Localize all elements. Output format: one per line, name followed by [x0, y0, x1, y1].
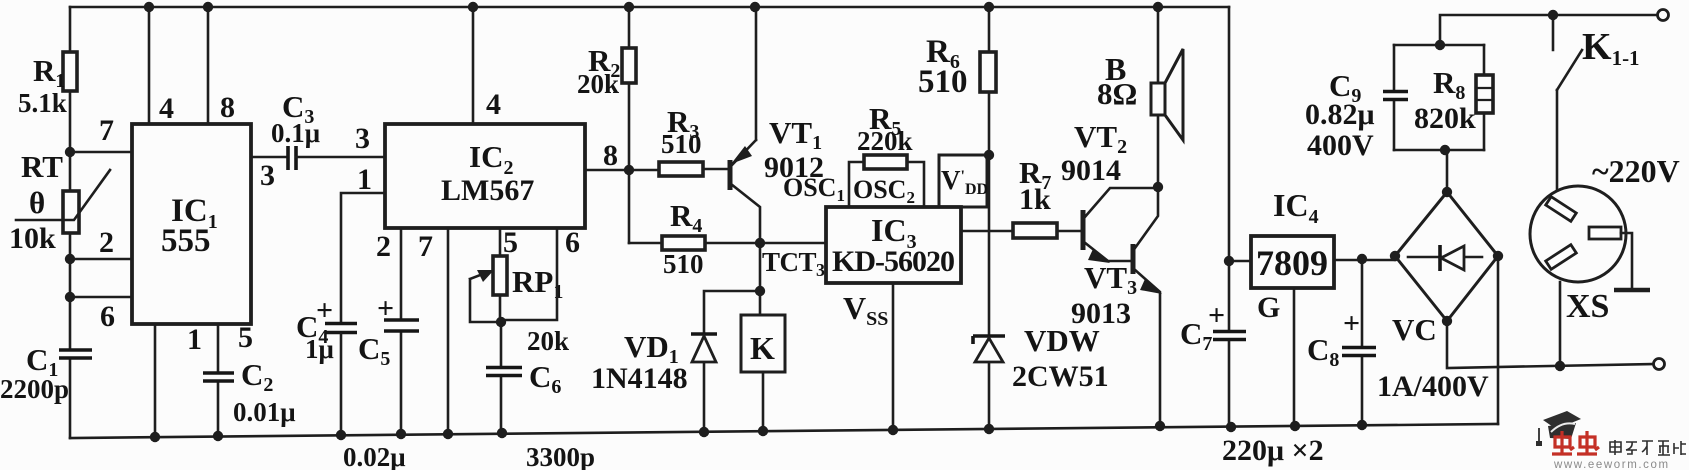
wire IC1 pin 7 [70, 114, 132, 152]
wire IC2 pin 8 to R3 [585, 139, 659, 172]
junction speaker-collector node [1153, 182, 1163, 192]
wire IC1 pin 5 [218, 321, 253, 436]
resistor R5 220k [849, 101, 924, 207]
junction rail IC2 pin4 [468, 2, 478, 12]
svg-text:2: 2 [376, 230, 391, 263]
svg-text:1: 1 [187, 323, 202, 356]
junction rail C5 [396, 429, 406, 439]
svg-text:+: + [1208, 299, 1225, 332]
wire IC2 pin 5 [500, 226, 518, 259]
wire plug neutral down [1559, 282, 1562, 365]
svg-text:OSC2: OSC2 [853, 175, 915, 207]
junction VD1 branch node [755, 286, 765, 296]
junction rail VT3 emitter [1155, 421, 1165, 431]
wire IC1 pin 2 [70, 226, 132, 259]
logo eeworm graduation cap [1536, 411, 1581, 446]
junction C8 node [1357, 254, 1367, 264]
logo site name characters [1610, 440, 1686, 455]
svg-text:K: K [750, 330, 775, 366]
wire IC2 pin 7 to ground [418, 228, 448, 434]
junction RP1-C6-pin6 node [496, 317, 506, 327]
junction node pin6 [65, 292, 75, 302]
transistor VT3 9013 [1071, 187, 1162, 426]
speaker B 8ohm [1097, 7, 1183, 187]
junction rail C4 [336, 430, 346, 440]
svg-text:9013: 9013 [1071, 297, 1131, 330]
wire R4 to IC3 TCT3 [705, 243, 826, 280]
svg-text:7: 7 [418, 230, 433, 263]
junction rail pin4 [144, 2, 154, 12]
svg-text:10k: 10k [9, 222, 56, 255]
junction rail speaker [1153, 2, 1163, 12]
junction rail C7 [1226, 422, 1236, 432]
junction node pin2 [65, 254, 75, 264]
junction rail VSS [888, 425, 898, 435]
svg-text:820k: 820k [1414, 102, 1476, 135]
svg-text:1μ: 1μ [305, 334, 334, 364]
zener VDW 2CW51 [973, 323, 1109, 393]
junction plug-AC node [1555, 361, 1565, 371]
junction rail R6 [984, 2, 994, 12]
wire IC1 pin 8 [208, 7, 235, 124]
wire top power rail [70, 6, 1229, 9]
svg-text:0.1μ: 0.1μ [271, 118, 320, 148]
resistor R4 [629, 198, 705, 279]
wire IC2 pin 2 to C5 [376, 228, 401, 434]
capacitor C9 [1305, 45, 1408, 162]
wire AC bottom line [1447, 321, 1653, 368]
relay K [741, 315, 785, 432]
junction rail VDW [984, 424, 994, 434]
svg-text:6: 6 [100, 300, 115, 333]
junction RC bottom node [1440, 145, 1450, 155]
capacitor C7 [1180, 261, 1246, 428]
thermistor RT [9, 149, 110, 255]
svg-text:510: 510 [661, 129, 702, 159]
regulator IC4 7809 [1251, 187, 1334, 427]
svg-text:20k: 20k [527, 326, 569, 356]
bridge rectifier VC [1377, 187, 1503, 403]
junction rail VD1 [699, 427, 709, 437]
svg-text:5.1k: 5.1k [18, 88, 67, 118]
svg-text:3300p: 3300p [526, 442, 595, 470]
resistor R2 [577, 7, 636, 170]
wire IC3 to R7 [961, 230, 1013, 233]
resistor R6 [918, 34, 996, 100]
svg-text:3: 3 [260, 159, 275, 192]
svg-text:6: 6 [565, 226, 580, 259]
junction rail pin7 [443, 429, 453, 439]
svg-text:220k: 220k [857, 126, 913, 156]
svg-text:VC: VC [1392, 312, 1437, 347]
svg-text:+: + [1343, 307, 1360, 340]
svg-text:KD-56020: KD-56020 [832, 245, 954, 278]
junction rail pin1 [150, 432, 160, 442]
svg-text:0.02μ: 0.02μ [343, 442, 406, 470]
svg-text:8: 8 [603, 139, 618, 172]
svg-text:www.eeworm.com: www.eeworm.com [1553, 459, 1670, 470]
svg-text:400V: 400V [1307, 129, 1374, 162]
transistor VT2 9014 [1061, 119, 1158, 263]
wire R2 to R4 [628, 170, 631, 243]
wire R6 and VDW column [988, 7, 991, 429]
junction rail R2 [624, 2, 634, 12]
wire VD1 branch [704, 291, 760, 434]
svg-text:2CW51: 2CW51 [1012, 360, 1109, 393]
wire plug earth [1621, 233, 1632, 288]
capacitor C5 [343, 292, 419, 470]
junction rail C2 [213, 431, 223, 441]
svg-text:9014: 9014 [1061, 154, 1121, 187]
wire RC dropper frame [1394, 45, 1484, 150]
junction R2-R3-R4 node [624, 165, 634, 175]
svg-text:1N4148: 1N4148 [591, 362, 688, 395]
svg-text:555: 555 [161, 223, 211, 259]
junction VDD-R6 node [984, 150, 994, 160]
wire IC1 pin 1 to ground [155, 323, 202, 437]
wire bridge right to ground rail [1497, 256, 1500, 424]
svg-text:LM567: LM567 [441, 174, 534, 207]
transistor VT1 9012 [730, 7, 824, 243]
svg-text:5: 5 [238, 321, 253, 354]
svg-text:0.82μ: 0.82μ [1305, 98, 1375, 131]
capacitor C3 [271, 89, 320, 170]
resistor R8 820k [1414, 45, 1493, 150]
svg-text:8Ω: 8Ω [1097, 76, 1137, 111]
terminal bottom right [1654, 359, 1665, 370]
wire IC3 VSS to ground [843, 283, 893, 430]
svg-text:7: 7 [99, 114, 114, 147]
junction rail C6 [497, 428, 507, 438]
svg-text:2: 2 [99, 226, 114, 259]
svg-text:θ: θ [29, 185, 45, 220]
svg-text:+: + [316, 294, 333, 327]
svg-text:0.01μ: 0.01μ [233, 397, 296, 427]
svg-text:5: 5 [503, 226, 518, 259]
svg-text:4: 4 [486, 88, 501, 121]
label VDD pin box [939, 155, 988, 207]
wire IC1 pin 6 [70, 297, 132, 333]
capacitor C4 [296, 294, 357, 435]
wire bottom ground rail [70, 424, 1498, 438]
diode VD1 1N4148 [591, 329, 717, 395]
ground earth bar [1614, 288, 1650, 293]
wire switch to plug [1556, 90, 1559, 202]
wire IC1 pin 3 [251, 157, 286, 192]
wire IC2 pin 4 [473, 7, 501, 124]
resistor R3 [659, 104, 727, 176]
svg-text:3: 3 [355, 122, 370, 155]
wire C3 to IC2 pin 3 [296, 122, 385, 157]
plug XS [1530, 186, 1626, 325]
junction rail relay [758, 426, 768, 436]
junction rail VT1 emitter [750, 2, 760, 12]
junction rail IC4 ground [1290, 421, 1300, 431]
terminal top right [1658, 10, 1669, 21]
junction switch node [1548, 10, 1558, 20]
svg-text:2200p: 2200p [0, 374, 69, 404]
wire left supply column [69, 7, 72, 438]
wire IC2 pin 1 to C4 [341, 163, 385, 321]
svg-text:1A/400V: 1A/400V [1377, 370, 1489, 403]
svg-text:OSC1: OSC1 [783, 173, 845, 205]
wire rail to IC4 input [1229, 7, 1251, 261]
junction C7-IC4 node [1224, 256, 1234, 266]
capacitor C6 [486, 322, 595, 470]
svg-text:510: 510 [663, 249, 704, 279]
svg-text:+: + [377, 292, 394, 325]
svg-text:4: 4 [159, 92, 174, 125]
svg-text:XS: XS [1566, 288, 1609, 325]
wire collector to relay [759, 243, 762, 315]
logo chongchong red characters [1552, 431, 1599, 454]
svg-text:TCT3: TCT3 [762, 247, 825, 280]
svg-text:G: G [1257, 291, 1280, 324]
resistor R7 [1013, 155, 1080, 238]
svg-text:220μ ×2: 220μ ×2 [1222, 434, 1324, 467]
svg-text:1: 1 [357, 163, 372, 196]
svg-text:RT: RT [21, 149, 63, 184]
capacitor C8 [1307, 259, 1376, 425]
svg-text:7809: 7809 [1256, 243, 1328, 283]
potentiometer RP1 [470, 256, 569, 356]
svg-text:8: 8 [220, 91, 235, 124]
IC U3 KD-56020 [826, 207, 961, 283]
wire mains top line [1440, 15, 1659, 45]
wire IC2 pin 6 [501, 226, 580, 320]
junction RC top node [1435, 40, 1445, 50]
wire IC4 output [1334, 259, 1395, 262]
svg-text:20k: 20k [577, 69, 619, 99]
junction VT1 collector node [755, 238, 765, 248]
wire IC1 pin 4 [149, 7, 174, 125]
capacitor C1 [0, 342, 92, 404]
junction rail C8 [1357, 420, 1367, 430]
junction node R1-pin7 [65, 147, 75, 157]
resistor R1 [18, 52, 77, 118]
junction rail pin8 [203, 2, 213, 12]
switch K1-1 [1553, 15, 1640, 90]
capacitor C2 [203, 357, 296, 427]
wire bridge top to RC dropper [1446, 150, 1449, 192]
IC U2 LM567 [385, 124, 585, 228]
svg-text:1k: 1k [1019, 183, 1051, 216]
svg-text:510: 510 [918, 64, 968, 100]
IC U1 555 timer [132, 124, 251, 324]
svg-text:~220V: ~220V [1592, 153, 1680, 189]
